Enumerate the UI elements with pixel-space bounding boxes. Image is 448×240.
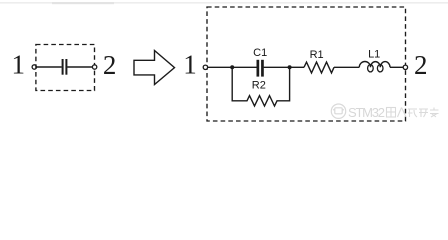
terminal circle left of left circuit [32,65,36,69]
svg-text:1: 1 [183,50,197,80]
inductor L1 humps [359,61,390,67]
capacitor (ideal) plates [62,59,64,75]
svg-text:C1: C1 [253,47,267,59]
big dashed box around equivalent circuit [207,7,406,121]
svg-text:R1: R1 [310,49,324,61]
svg-text:2: 2 [103,50,117,80]
svg-text:STM32: STM32 [348,105,385,120]
wire node B to R1 [290,66,304,68]
resistor R1 zigzag [304,62,334,73]
svg-text:R2: R2 [252,79,266,91]
wire R1 to L1 [334,66,359,68]
resistor R2 branch (parallel) with zigzag [232,67,289,106]
junction node A [230,65,234,69]
terminal circle right of left circuit [92,65,96,69]
svg-text:1: 1 [11,50,25,80]
wire L1 to terminal 2 [390,66,403,68]
watermark logo circle [331,104,345,118]
wire C1 to node B [264,66,290,68]
faint horizontal artifact line at top [0,2,448,4]
svg-text:L1: L1 [368,48,380,60]
watermark CJK glyph approximations (嵌入式开发) [387,108,439,118]
junction node B [288,65,292,69]
terminal circle left of right circuit [203,65,207,69]
block arrow (equivalence) [134,51,175,85]
inductor L1 loops [368,65,374,72]
dashed box around ideal capacitor [36,45,95,91]
terminal circle right of right circuit [403,65,407,69]
wire terminal 1 to node A [208,66,233,68]
wire node A to C1 [232,66,256,68]
capacitor C1 plates [257,60,260,77]
wire from terminal 1 to capacitor [37,66,62,68]
svg-text:2: 2 [414,50,428,80]
wire from capacitor to terminal 2 [67,66,92,68]
